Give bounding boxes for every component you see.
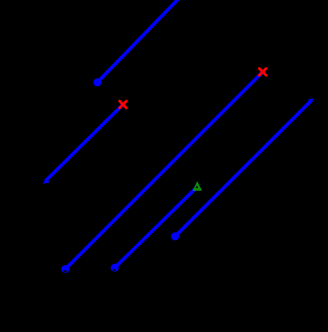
dot C (61, 265, 69, 273)
line D (dot at lower end, green triangle at upper end) (115, 188, 197, 268)
dot C dark notch (63, 270, 66, 272)
green triangle marker (193, 181, 203, 191)
red X marker C (259, 69, 266, 76)
dot A (93, 78, 101, 86)
arrowhead line E tip (308, 98, 313, 105)
line B (arrow tail lower-left, red X at upper end) (45, 105, 123, 182)
dot D (111, 264, 119, 272)
line E (dot at lower end, bare arrow tip upper right) (175, 100, 312, 237)
line A (dot at lower end, exits top edge) (97, 0, 181, 82)
line C (dot at lower end, red X at upper end) (65, 72, 262, 269)
arrowhead line B tail (43, 176, 49, 183)
dot D dark notch (113, 269, 116, 271)
red X marker B (120, 101, 127, 108)
triangle center hole (196, 186, 198, 188)
dot E (171, 232, 179, 240)
